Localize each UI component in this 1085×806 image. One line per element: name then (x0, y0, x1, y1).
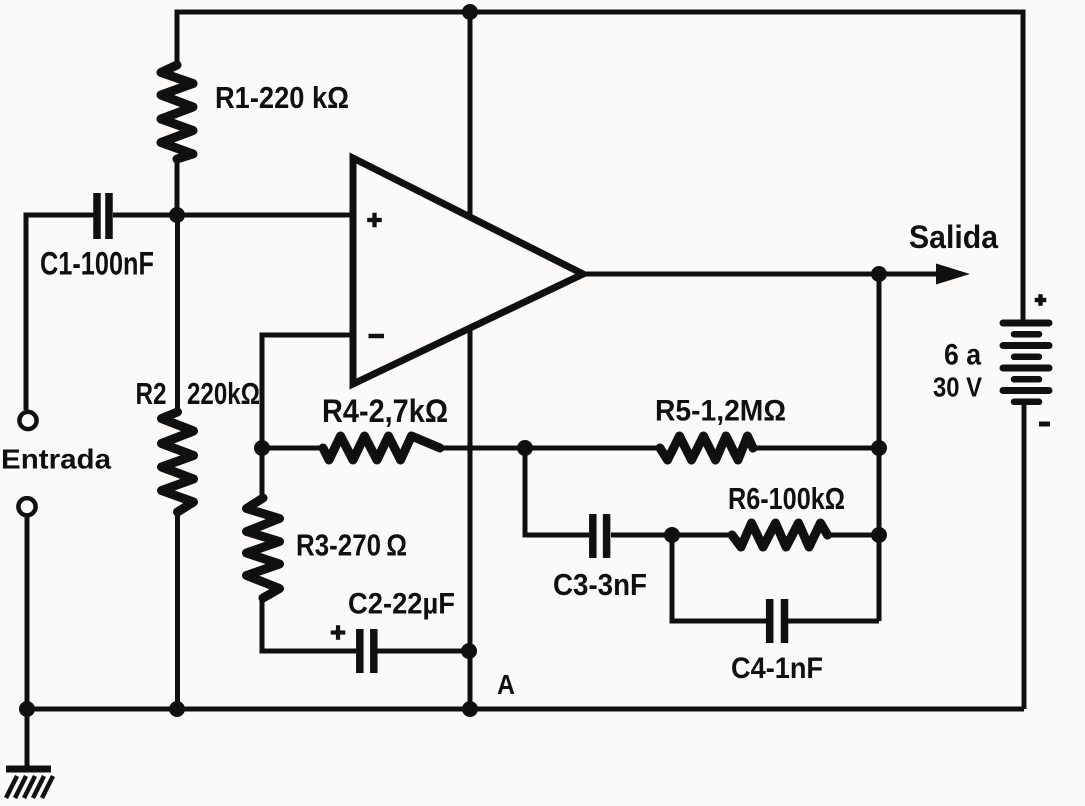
svg-text:R3-270 Ω: R3-270 Ω (296, 528, 407, 563)
svg-text:R2: R2 (136, 376, 167, 411)
svg-text:R6-100kΩ: R6-100kΩ (728, 481, 845, 516)
svg-text:Entrada: Entrada (1, 444, 111, 475)
svg-text:C1-100nF: C1-100nF (40, 246, 154, 282)
svg-text:R1-220 kΩ: R1-220 kΩ (215, 80, 349, 115)
svg-text:220kΩ: 220kΩ (187, 376, 260, 411)
svg-text:6 a: 6 a (944, 339, 981, 372)
svg-text:C2-22µF: C2-22µF (348, 588, 455, 621)
svg-text:30 V: 30 V (933, 372, 982, 403)
svg-text:A: A (497, 669, 515, 700)
svg-text:C3-3nF: C3-3nF (553, 567, 647, 602)
svg-text:Salida: Salida (909, 219, 998, 255)
svg-text:C4-1nF: C4-1nF (731, 652, 823, 685)
svg-text:R5-1,2MΩ: R5-1,2MΩ (655, 395, 786, 428)
svg-text:R4-2,7kΩ: R4-2,7kΩ (322, 393, 448, 429)
